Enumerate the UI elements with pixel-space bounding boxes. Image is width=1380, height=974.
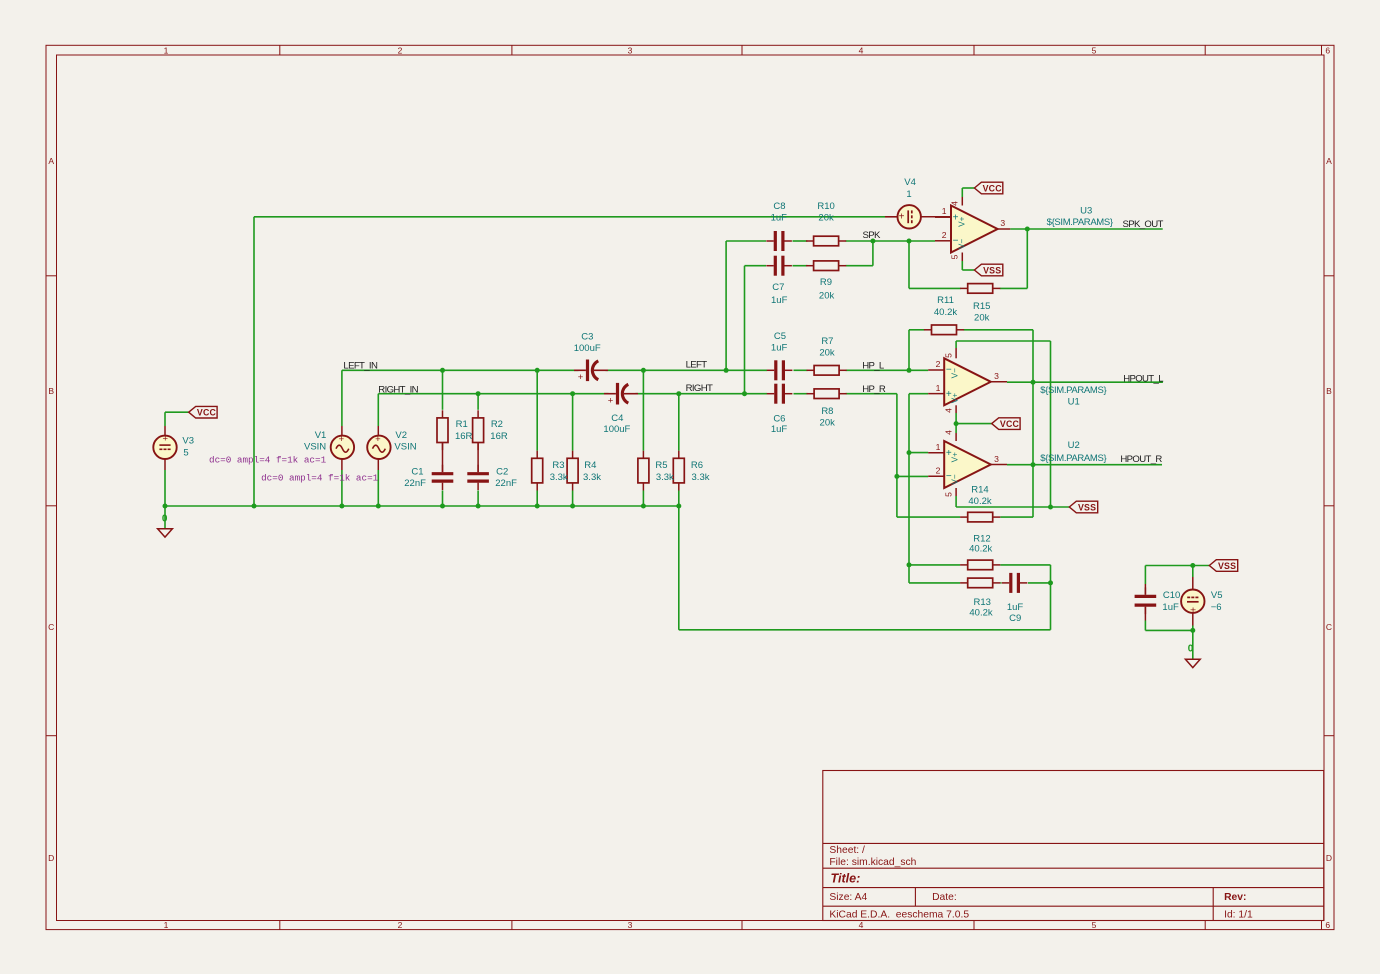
svg-text:4: 4 xyxy=(859,46,864,56)
svg-text:V+: V+ xyxy=(951,393,960,403)
svg-text:VSIN: VSIN xyxy=(394,442,416,453)
svg-text:V+: V+ xyxy=(951,452,960,462)
svg-text:2: 2 xyxy=(942,230,947,240)
svg-text:3: 3 xyxy=(1000,218,1005,228)
svg-text:dc=0 ampl=4 f=1k ac=1: dc=0 ampl=4 f=1k ac=1 xyxy=(209,454,327,465)
svg-text:R5: R5 xyxy=(655,460,667,471)
svg-text:VSIN: VSIN xyxy=(304,442,326,453)
svg-text:V2: V2 xyxy=(395,430,407,441)
svg-text:0: 0 xyxy=(1188,643,1194,654)
svg-text:100uF: 100uF xyxy=(603,424,630,435)
svg-text:6: 6 xyxy=(1325,46,1330,56)
svg-text:C2: C2 xyxy=(496,467,508,478)
svg-text:1: 1 xyxy=(164,920,169,930)
svg-text:+: + xyxy=(339,434,345,445)
svg-text:5: 5 xyxy=(183,448,188,459)
svg-text:−6: −6 xyxy=(1211,602,1222,613)
svg-text:R7: R7 xyxy=(821,336,833,347)
svg-text:C1: C1 xyxy=(411,467,423,478)
svg-text:${SIM.PARAMS}: ${SIM.PARAMS} xyxy=(1047,217,1113,228)
svg-text:1uF: 1uF xyxy=(1007,602,1024,613)
svg-text:HP_R: HP_R xyxy=(862,384,886,395)
svg-text:5: 5 xyxy=(1092,46,1097,56)
svg-text:+: + xyxy=(578,372,584,383)
svg-text:1: 1 xyxy=(936,383,941,393)
svg-text:RIGHT_IN: RIGHT_IN xyxy=(378,384,418,395)
svg-text:3: 3 xyxy=(628,920,633,930)
svg-text:${SIM.PARAMS}: ${SIM.PARAMS} xyxy=(1040,385,1106,396)
svg-text:C6: C6 xyxy=(773,414,785,425)
svg-text:C9: C9 xyxy=(1009,613,1021,624)
svg-text:R10: R10 xyxy=(817,201,834,212)
svg-text:U1: U1 xyxy=(1068,397,1080,408)
svg-text:20k: 20k xyxy=(818,213,834,224)
svg-text:C: C xyxy=(1326,622,1332,632)
svg-text:5: 5 xyxy=(944,492,954,497)
svg-text:V−: V− xyxy=(958,239,967,249)
svg-text:C8: C8 xyxy=(773,201,785,212)
svg-text:R2: R2 xyxy=(491,419,503,430)
svg-text:B: B xyxy=(1326,386,1332,396)
svg-text:VSS: VSS xyxy=(1078,502,1096,512)
svg-text:HPOUT_R: HPOUT_R xyxy=(1120,454,1162,465)
svg-text:C5: C5 xyxy=(774,331,786,342)
svg-text:C3: C3 xyxy=(581,332,593,343)
svg-text:C7: C7 xyxy=(772,282,784,293)
svg-text:2: 2 xyxy=(936,466,941,476)
svg-text:Title:: Title: xyxy=(831,872,861,886)
svg-text:1uF: 1uF xyxy=(771,295,788,306)
svg-text:A: A xyxy=(1326,156,1332,166)
svg-text:D: D xyxy=(48,853,54,863)
svg-text:V−: V− xyxy=(951,368,960,378)
svg-text:HPOUT_L: HPOUT_L xyxy=(1123,373,1164,384)
svg-text:R3: R3 xyxy=(552,460,564,471)
svg-text:22nF: 22nF xyxy=(404,478,426,489)
svg-text:+: + xyxy=(1190,604,1196,616)
svg-text:R1: R1 xyxy=(456,419,468,430)
svg-text:1uF: 1uF xyxy=(771,424,788,435)
svg-text:40.2k: 40.2k xyxy=(969,544,992,555)
svg-text:3: 3 xyxy=(994,454,999,464)
svg-text:2: 2 xyxy=(398,46,403,56)
svg-text:4: 4 xyxy=(944,408,954,413)
svg-text:16R: 16R xyxy=(455,431,473,442)
svg-text:C: C xyxy=(48,622,54,632)
svg-text:V3: V3 xyxy=(182,435,194,446)
svg-text:3.3k: 3.3k xyxy=(550,472,568,483)
svg-text:R14: R14 xyxy=(971,485,988,496)
svg-text:3.3k: 3.3k xyxy=(692,472,710,483)
svg-text:VCC: VCC xyxy=(1000,419,1020,429)
svg-text:V1: V1 xyxy=(315,430,327,441)
svg-text:D: D xyxy=(1326,853,1332,863)
svg-text:VSS: VSS xyxy=(983,265,1001,275)
svg-text:R4: R4 xyxy=(584,460,596,471)
svg-text:R11: R11 xyxy=(937,295,954,306)
svg-text:U3: U3 xyxy=(1080,206,1092,217)
svg-text:5: 5 xyxy=(1092,920,1097,930)
svg-text:5: 5 xyxy=(950,254,960,259)
svg-text:SPK: SPK xyxy=(863,230,881,241)
svg-text:16R: 16R xyxy=(490,431,508,442)
svg-text:2: 2 xyxy=(398,920,403,930)
svg-text:3.3k: 3.3k xyxy=(583,472,601,483)
svg-text:4: 4 xyxy=(950,201,960,206)
svg-text:+: + xyxy=(375,434,381,445)
svg-text:5: 5 xyxy=(944,353,954,358)
svg-text:U2: U2 xyxy=(1068,440,1080,451)
svg-text:Size: A4: Size: A4 xyxy=(829,892,867,903)
svg-text:${SIM.PARAMS}: ${SIM.PARAMS} xyxy=(1040,453,1106,464)
svg-text:Rev:: Rev: xyxy=(1224,892,1246,903)
svg-text:20k: 20k xyxy=(820,418,836,429)
svg-text:dc=0 ampl=4 f=1k ac=1: dc=0 ampl=4 f=1k ac=1 xyxy=(261,472,379,483)
svg-text:1uF: 1uF xyxy=(771,213,788,224)
svg-text:22nF: 22nF xyxy=(495,478,517,489)
svg-text:VCC: VCC xyxy=(983,183,1003,193)
svg-text:40.2k: 40.2k xyxy=(934,307,957,318)
svg-text:C10: C10 xyxy=(1163,590,1180,601)
svg-text:0: 0 xyxy=(162,514,168,525)
svg-text:4: 4 xyxy=(944,430,954,435)
svg-text:40.2k: 40.2k xyxy=(968,496,991,507)
svg-text:40.2k: 40.2k xyxy=(969,607,992,618)
svg-text:+: + xyxy=(163,434,169,445)
svg-text:R15: R15 xyxy=(973,301,990,312)
svg-text:R6: R6 xyxy=(691,460,703,471)
svg-text:1: 1 xyxy=(164,46,169,56)
svg-text:R13: R13 xyxy=(973,597,990,608)
svg-text:Date:: Date: xyxy=(932,892,957,903)
svg-text:LEFT_IN: LEFT_IN xyxy=(343,361,378,372)
svg-text:3: 3 xyxy=(628,46,633,56)
svg-text:SPK_OUT: SPK_OUT xyxy=(1122,219,1163,230)
svg-text:1uF: 1uF xyxy=(1162,602,1179,613)
svg-text:Id: 1/1: Id: 1/1 xyxy=(1224,909,1253,920)
svg-text:HP_L: HP_L xyxy=(862,360,885,371)
svg-text:V+: V+ xyxy=(958,216,967,226)
svg-text:1uF: 1uF xyxy=(771,343,788,354)
svg-text:2: 2 xyxy=(936,359,941,369)
svg-text:B: B xyxy=(48,386,54,396)
svg-text:RIGHT: RIGHT xyxy=(686,383,713,394)
svg-text:100uF: 100uF xyxy=(574,343,601,354)
svg-text:R8: R8 xyxy=(821,406,833,417)
svg-text:20k: 20k xyxy=(819,291,835,302)
svg-text:20k: 20k xyxy=(819,348,835,359)
svg-text:V5: V5 xyxy=(1211,590,1223,601)
svg-text:+: + xyxy=(608,395,614,406)
svg-text:R9: R9 xyxy=(820,277,832,288)
svg-text:KiCad E.D.A. eeschema 7.0.5: KiCad E.D.A. eeschema 7.0.5 xyxy=(829,909,969,920)
svg-text:3.3k: 3.3k xyxy=(656,472,674,483)
svg-text:C4: C4 xyxy=(611,413,623,424)
svg-text:V−: V− xyxy=(951,474,960,484)
svg-text:3: 3 xyxy=(994,371,999,381)
svg-text:File: sim.kicad_sch: File: sim.kicad_sch xyxy=(829,857,916,868)
svg-text:VSS: VSS xyxy=(1218,561,1236,571)
svg-text:Sheet: /: Sheet: / xyxy=(829,845,865,856)
svg-text:20k: 20k xyxy=(974,313,990,324)
svg-text:6: 6 xyxy=(1325,920,1330,930)
svg-text:VCC: VCC xyxy=(197,408,217,418)
svg-text:1: 1 xyxy=(942,206,947,216)
svg-text:LEFT: LEFT xyxy=(686,360,708,371)
svg-text:+: + xyxy=(899,212,905,223)
svg-text:1: 1 xyxy=(936,442,941,452)
svg-text:A: A xyxy=(48,156,54,166)
svg-text:4: 4 xyxy=(859,920,864,930)
svg-text:V4: V4 xyxy=(904,177,916,188)
svg-text:1: 1 xyxy=(906,189,911,200)
